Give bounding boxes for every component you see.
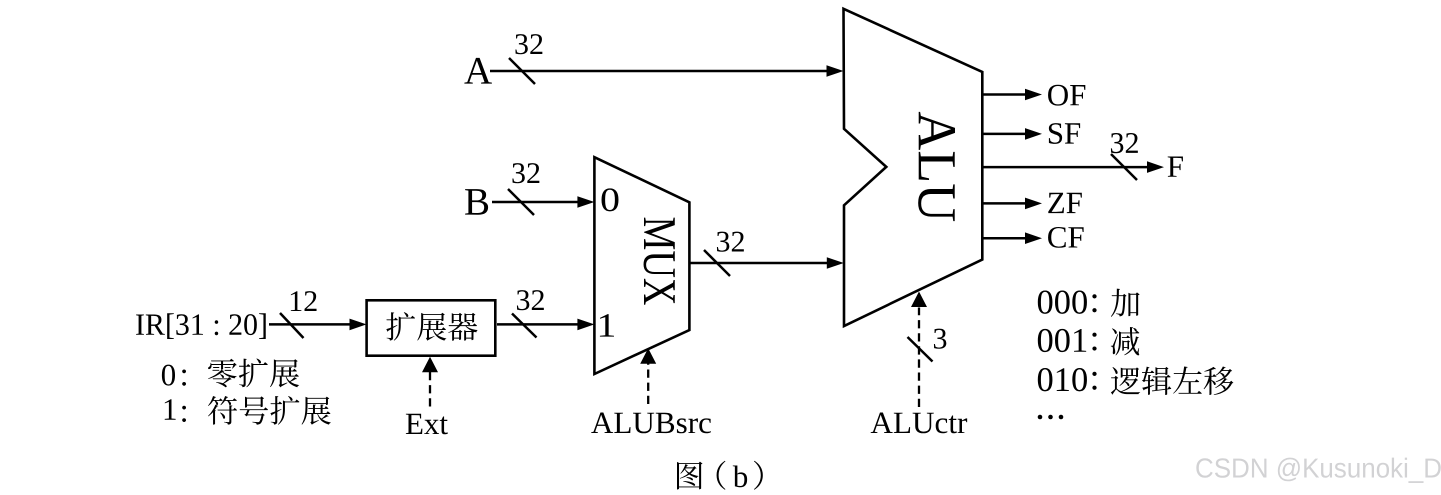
node IR[31:20] label bbox=[136, 313, 266, 339]
bus slash 32 (ext out) bbox=[512, 314, 537, 338]
control label ALUBsrc bbox=[591, 413, 711, 434]
caption 图 (b) bbox=[677, 462, 702, 490]
control ALUBsrc dashed arrow bbox=[647, 362, 649, 404]
bus slash 32 (F) bbox=[1111, 154, 1137, 180]
bus slash 12 bbox=[280, 313, 304, 338]
wire MUX to ALU bbox=[689, 262, 828, 265]
bus width label 32 (ext out) bbox=[517, 290, 544, 310]
legend 010: logical shift left bbox=[1038, 368, 1087, 391]
legend 001: subtract bbox=[1038, 329, 1086, 352]
wire flag SF bbox=[982, 133, 1026, 136]
bus slash 3 (ALUctr) bbox=[908, 337, 933, 362]
bus width label 32 (B) bbox=[512, 163, 539, 183]
wire flag CF bbox=[982, 237, 1026, 240]
legend 1: sign-extend bbox=[165, 399, 176, 419]
mux input label 0 bbox=[602, 188, 619, 211]
extender box 扩展器 U1 bbox=[367, 300, 496, 355]
legend 0: zero-extend bbox=[162, 365, 175, 386]
bus width label 12 bbox=[291, 291, 317, 311]
node B label bbox=[465, 189, 488, 215]
legend ellipsis bbox=[1038, 415, 1043, 420]
control label ALUctr bbox=[871, 413, 967, 434]
bus slash 32 (mux out) bbox=[704, 250, 730, 276]
flag label CF bbox=[1048, 227, 1084, 248]
control ALUctr dashed arrow bbox=[918, 308, 920, 408]
wire flag OF bbox=[982, 93, 1026, 96]
wire flag ZF bbox=[982, 202, 1026, 205]
mux MUX trapezoid bbox=[594, 157, 689, 374]
wire result F bbox=[982, 166, 1148, 169]
control label Ext bbox=[406, 414, 448, 435]
bus width label 32 (A) bbox=[515, 34, 542, 54]
bus slash 32 (B) bbox=[508, 189, 534, 215]
control Ext dashed arrow bbox=[429, 371, 431, 407]
wire extender to MUX input 1 bbox=[497, 323, 578, 326]
flag label ZF bbox=[1048, 193, 1082, 213]
wire B to MUX input 0 bbox=[492, 201, 578, 204]
watermark CSDN @Kusunoki_D bbox=[1196, 458, 1440, 483]
wire IR to extender bbox=[269, 323, 350, 326]
bus slash 32 (A) bbox=[509, 58, 535, 84]
bus width label 32 (mux out) bbox=[717, 232, 744, 252]
ALU label (rotated) bbox=[918, 112, 955, 221]
bus width label 32 (F) bbox=[1111, 133, 1138, 153]
ALU body U2 bbox=[844, 9, 983, 326]
legend 000: add bbox=[1038, 291, 1087, 314]
node F label bbox=[1168, 157, 1183, 177]
mux label MUX (rotated) bbox=[644, 218, 675, 305]
bus width label 3 bbox=[934, 329, 946, 349]
mux input label 1 bbox=[600, 314, 614, 336]
wire A to ALU bbox=[490, 70, 827, 73]
flag label OF bbox=[1048, 85, 1085, 106]
flag label SF bbox=[1049, 123, 1080, 144]
node A label bbox=[464, 58, 491, 84]
